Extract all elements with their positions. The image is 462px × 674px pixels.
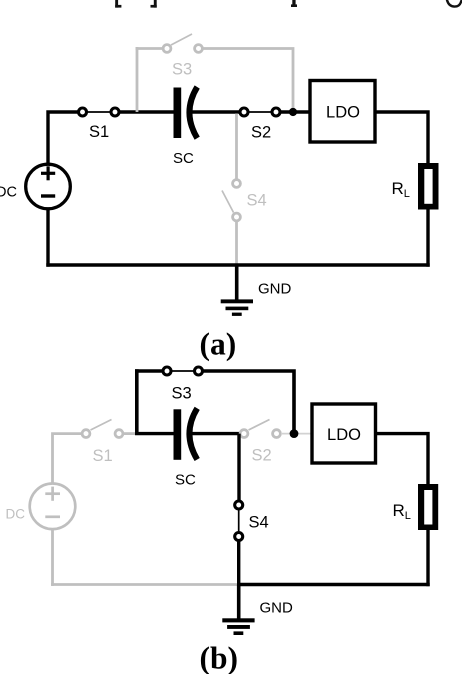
svg-text:RL: RL [392, 179, 410, 200]
svg-text:DC: DC [6, 507, 26, 522]
node: junction dot before LDO [289, 108, 297, 116]
svg-text:LDO: LDO [327, 426, 361, 444]
svg-text:S2: S2 [251, 124, 271, 142]
wire: gray DC top corner to S1 [53, 434, 82, 484]
cropped text fragment "p" stem [291, 0, 297, 7]
svg-text:DC: DC [0, 185, 17, 201]
switch S4 (closed, black, vertical) (b) [235, 501, 243, 541]
svg-text:(b): (b) [200, 640, 239, 674]
wire: gray S4 branch lower vertical [235, 222, 238, 265]
wire: gray S1 to black node [124, 432, 137, 435]
wire: SC to S4 node (b) [190, 432, 241, 435]
wire: SC to S2 [190, 110, 240, 113]
wire: S2 to LDO [281, 110, 310, 113]
cropped text fragment "[" [115, 0, 121, 8]
switch S1 (closed) contact circles [79, 108, 120, 116]
wire: S1 to capacitor SC [120, 110, 174, 113]
op-amp block LDO (b) [312, 404, 376, 463]
capacitor SC right curved plate (b) [189, 408, 197, 459]
wire: DC bottom to rail [46, 209, 49, 267]
resistor RL (a) [418, 163, 439, 210]
wire: black corner to capacitor SC (b) [135, 432, 174, 435]
capacitor SC left plate [174, 88, 182, 139]
svg-text:SC: SC [175, 472, 196, 489]
cropped text fragment "g" descender [447, 0, 461, 7]
wire: S3 branch top horizontal right + right vertical down to node (black) [203, 371, 294, 430]
capacitor SC left plate (b) [174, 409, 182, 460]
svg-text:S3: S3 [172, 61, 192, 79]
wire: gray DC bottom to rail (b) [51, 529, 54, 586]
wire: gray S3 branch left vertical [136, 47, 139, 112]
switch S1 (open, gray) [82, 420, 123, 438]
svg-text:SC: SC [173, 150, 194, 167]
svg-text:LDO: LDO [326, 104, 360, 122]
wire: RL down to bottom rail [426, 209, 429, 267]
svg-text:S3: S3 [172, 385, 192, 403]
switch S2 (open, gray) (b) [240, 420, 280, 438]
voltage source DC (a) [26, 164, 71, 209]
wire: S4 branch upper vertical (black) (b) [237, 434, 240, 501]
ground symbol (b) [222, 585, 254, 636]
wire: DC top to S1 [48, 112, 78, 164]
cropped text fragment "]" [151, 0, 157, 8]
op-amp block LDO (a) [310, 81, 375, 143]
ground symbol (a) [221, 265, 253, 316]
wire: gray bottom rail left segment (b) [51, 583, 238, 586]
svg-text:S4: S4 [249, 514, 269, 532]
wire: bottom rail (a) [46, 263, 429, 267]
svg-text:S1: S1 [89, 123, 109, 141]
svg-text:S4: S4 [247, 192, 267, 210]
voltage source DC (gray) (b) [30, 484, 76, 530]
svg-text:GND: GND [260, 600, 294, 617]
switch S2 (closed) contact circles [240, 108, 280, 116]
wire: gray S4 branch upper vertical [235, 114, 238, 180]
resistor RL (b) [418, 484, 438, 530]
switch S4 (open, gray, vertical) [222, 180, 240, 221]
svg-text:S1: S1 [93, 447, 113, 465]
wire: gray S3 branch top horizontal left [136, 47, 162, 50]
wire: black bottom rail right segment (b) [237, 583, 430, 587]
svg-text:RL: RL [393, 501, 411, 522]
wire: LDO to right rail and down to RL [375, 112, 428, 164]
wire: S4 branch lower vertical (black) (b) [237, 541, 240, 586]
node: junction dot before LDO (b) [290, 429, 299, 438]
capacitor SC right curved plate [189, 87, 197, 138]
wire: S3 branch left vertical (black) [135, 369, 139, 433]
wire: gray S3 branch top horizontal right + right vertical down to node [203, 49, 293, 109]
wire: S3 branch top horizontal left (black) [135, 369, 162, 373]
wire: LDO to right rail and down to RL (b) [376, 434, 429, 485]
switch S3 (open, gray) [163, 34, 202, 52]
switch S3 (closed, black) [163, 367, 203, 375]
wire: RL down to bottom rail (b) [426, 530, 429, 587]
svg-text:GND: GND [258, 281, 292, 298]
wire: faint gray S2 to LDO (b) [281, 433, 311, 435]
svg-text:(a): (a) [200, 327, 237, 362]
svg-text:S2: S2 [252, 447, 272, 465]
